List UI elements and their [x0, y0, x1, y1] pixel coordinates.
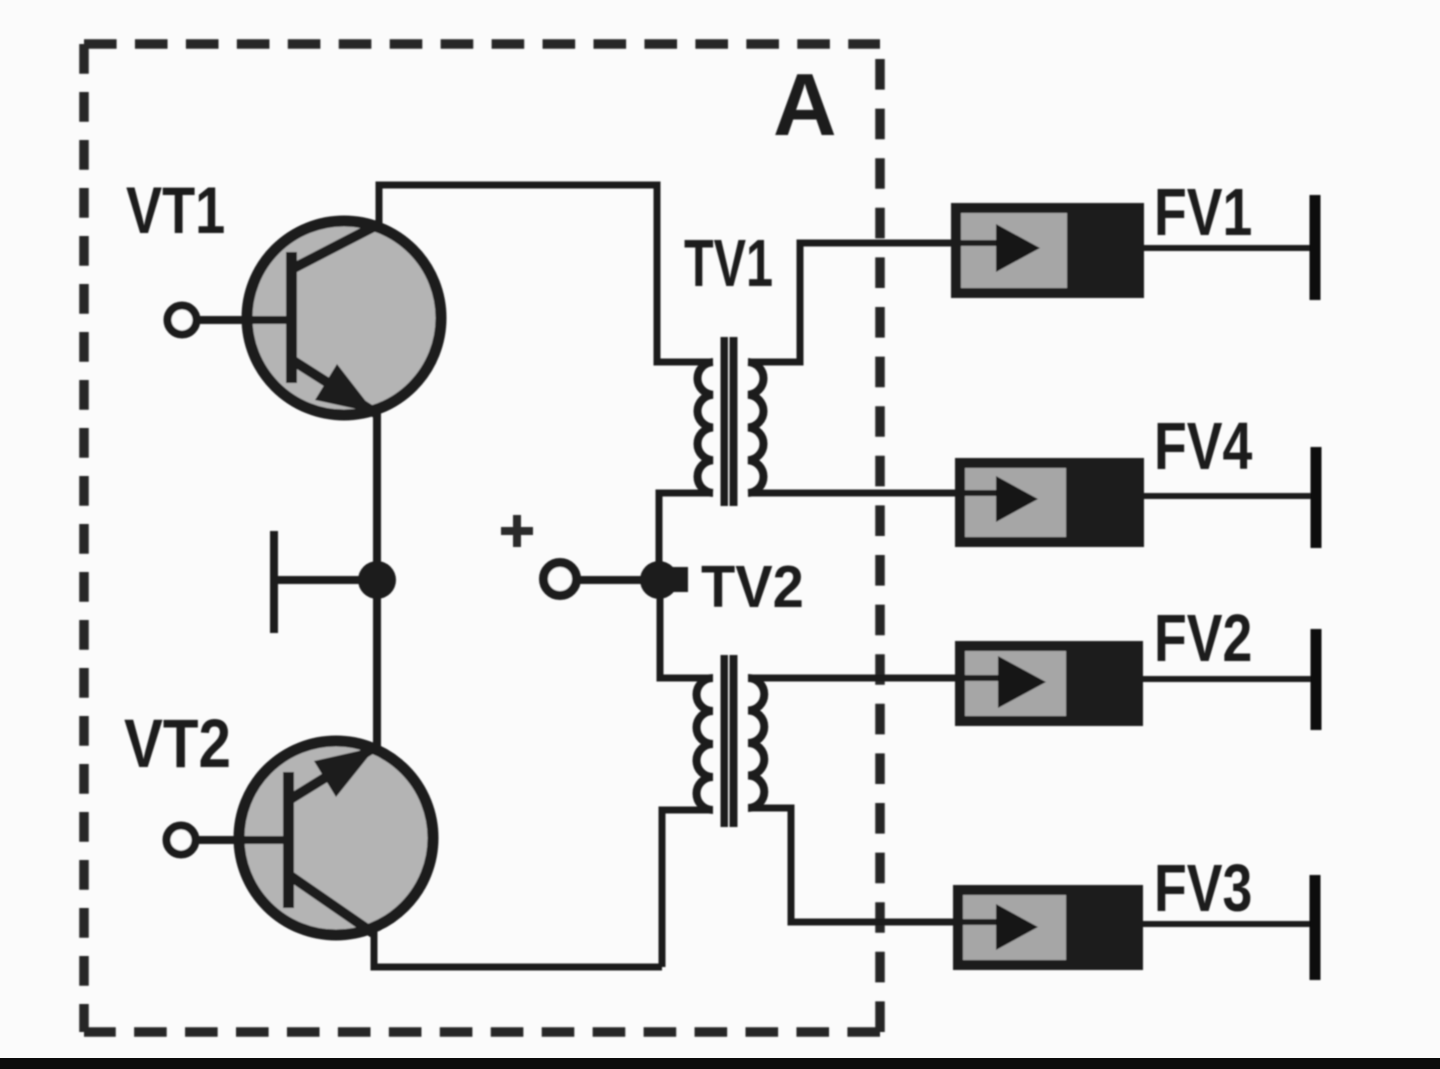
- FV1 body: [956, 208, 1139, 293]
- wire TV2 secondary top lead to FV2: [748, 675, 956, 682]
- fuse FV1: [800, 195, 1315, 300]
- TV2 core: [721, 655, 729, 827]
- svg-text:TV2: TV2: [701, 555, 804, 621]
- svg-text:A: A: [773, 55, 837, 154]
- TV1 core: [721, 337, 729, 506]
- FV1 wire out: [1143, 245, 1310, 251]
- wire TV1 secondary top lead to FV1: [748, 243, 952, 362]
- FV4 wire out: [1143, 493, 1311, 499]
- FV3 wire out: [1143, 921, 1310, 927]
- wire TV1 secondary bottom lead to FV4: [748, 490, 956, 497]
- FV2 terminal bar: [1311, 629, 1322, 730]
- FV1 wire in: [800, 240, 998, 246]
- label VT1: [126, 173, 225, 247]
- wire bar to node 1: [274, 576, 377, 584]
- label FV4: [1154, 408, 1253, 483]
- plus sign: [501, 515, 533, 547]
- wire emitter VT2 up to node 1: [373, 580, 381, 748]
- FV2 body: [960, 646, 1138, 721]
- wire TV1 primary bottom lead to node 2: [659, 493, 713, 580]
- TV2 primary winding: [697, 678, 713, 810]
- svg-text:FV1: FV1: [1154, 174, 1252, 249]
- transformer TV1: [698, 337, 764, 506]
- fuse FV2: [764, 629, 1316, 730]
- label TV2: [701, 555, 804, 621]
- node junction dot 2: [640, 561, 678, 599]
- TV1 secondary winding: [748, 362, 763, 493]
- TV2 secondary winding: [748, 678, 764, 808]
- dashed enclosure box A: [84, 44, 880, 1032]
- wire base VT1: [199, 316, 287, 324]
- wire node 2 down to TV2 primary top: [660, 580, 713, 678]
- wire node 1 down to VT2 emitter: [373, 580, 381, 748]
- FV3 terminal bar: [1310, 875, 1321, 980]
- svg-text:TV1: TV1: [684, 226, 773, 300]
- FV1 terminal bar: [1310, 195, 1321, 300]
- wire collector VT1 to TV1 primary top: [379, 185, 657, 362]
- terminal center input: [544, 563, 577, 596]
- FV2 wire out: [1142, 676, 1311, 682]
- wire collector VT2 bottom to TV2 primary: [374, 931, 662, 967]
- label FV3: [1154, 850, 1252, 925]
- wire terminal to node 2: [577, 576, 659, 584]
- terminal base VT1: [168, 306, 197, 335]
- label TV1: [684, 226, 773, 300]
- FV4 body: [960, 463, 1139, 542]
- label FV1: [1154, 174, 1252, 249]
- label A: [773, 55, 837, 154]
- svg-text:FV2: FV2: [1154, 600, 1252, 675]
- svg-text:VT2: VT2: [124, 704, 231, 782]
- label FV2: [1154, 600, 1252, 675]
- wire base VT2: [198, 836, 284, 844]
- FV4 terminal bar: [1311, 447, 1322, 548]
- wire TV2 primary bottom lead: [662, 810, 713, 967]
- node junction dot 1: [358, 561, 396, 599]
- bar terminal symbol: [270, 531, 278, 633]
- svg-text:FV3: FV3: [1154, 850, 1252, 925]
- FV4 wire in: [764, 490, 998, 496]
- fuse FV3: [791, 875, 1315, 980]
- svg-text:FV4: FV4: [1154, 408, 1253, 483]
- label VT2: [124, 704, 231, 782]
- FV3 wire in: [791, 919, 998, 925]
- wire TV1 primary top lead: [657, 358, 713, 362]
- FV3 body: [958, 890, 1138, 965]
- transformer TV2: [697, 655, 765, 827]
- transistor VT1: [247, 221, 441, 415]
- wire emitter VT1 down to node: [373, 412, 381, 580]
- fuse FV4: [764, 447, 1316, 548]
- TV1 primary winding: [698, 362, 713, 493]
- FV2 wire in: [764, 675, 1000, 681]
- svg-text:VT1: VT1: [126, 173, 225, 247]
- transistor VT2: [239, 741, 433, 935]
- wire TV2 secondary bottom lead to FV3: [748, 808, 954, 922]
- terminal base VT2: [167, 826, 196, 855]
